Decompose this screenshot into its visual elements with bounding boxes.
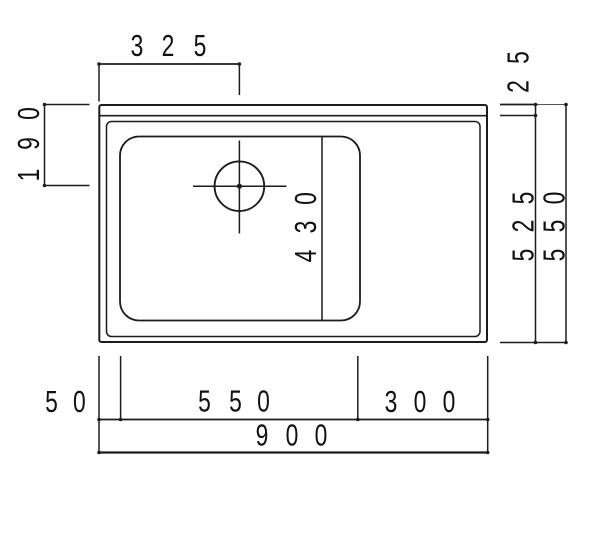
inner rim rectangle	[107, 122, 481, 337]
drain crosshair vertical	[238, 141, 240, 234]
dim 325 right extension	[238, 64, 240, 95]
svg-text:5: 5	[537, 249, 571, 262]
dim 550 right dimension line	[565, 105, 567, 343]
dim 190 dimension line	[44, 105, 46, 186]
svg-text:4: 4	[289, 250, 323, 263]
back ledge line	[99, 115, 487, 117]
svg-text:0: 0	[315, 418, 328, 452]
right extension line ledge (525 top)	[500, 115, 536, 117]
svg-text:5: 5	[198, 384, 211, 418]
svg-text:3: 3	[385, 385, 398, 419]
right extension line top (y 550 top)	[500, 104, 536, 106]
svg-text:9: 9	[12, 137, 46, 150]
sink bowl rounded rectangle	[120, 137, 360, 321]
label 25 rotated	[501, 51, 535, 93]
bowl partition line	[321, 137, 323, 321]
svg-text:5: 5	[506, 249, 540, 262]
dim 50/550/300 dimension line	[99, 419, 488, 421]
label 50	[45, 385, 86, 419]
svg-text:5: 5	[506, 192, 540, 205]
drain crosshair horizontal	[193, 185, 287, 187]
svg-text:5: 5	[501, 51, 535, 64]
label 300	[385, 385, 456, 419]
right extension line bottom	[500, 342, 568, 344]
label 325	[131, 29, 207, 63]
dim 190 top extension	[45, 104, 90, 106]
svg-text:0: 0	[257, 384, 270, 418]
label 190 rotated	[12, 107, 46, 181]
dim 900 dimension line	[99, 451, 488, 453]
svg-text:0: 0	[73, 385, 86, 419]
label 550 bottom	[198, 384, 270, 418]
svg-text:3: 3	[131, 29, 144, 63]
sink outer rim rectangle	[99, 105, 487, 342]
svg-text:0: 0	[537, 192, 571, 205]
svg-text:1: 1	[12, 169, 46, 182]
dim 325 end dots	[97, 62, 101, 66]
label 430 rotated	[289, 192, 323, 262]
svg-text:0: 0	[12, 107, 46, 120]
svg-text:0: 0	[443, 385, 456, 419]
dim 325 left extension	[98, 64, 100, 102]
dim 190 bottom extension	[45, 185, 90, 187]
bottom extension 550/300 tick (x=357.8)	[357, 356, 359, 420]
label 525 rotated	[506, 192, 540, 262]
svg-text:0: 0	[414, 385, 427, 419]
svg-text:0: 0	[286, 418, 299, 452]
svg-text:5: 5	[537, 220, 571, 233]
svg-text:0: 0	[289, 192, 323, 205]
dim 525 dimension line	[535, 105, 537, 343]
bottom extension right (x=487.7)	[487, 356, 489, 454]
dim 190 end dots	[43, 103, 47, 107]
bottom dims end dots	[97, 418, 101, 422]
label 900	[256, 418, 328, 452]
svg-text:5: 5	[194, 29, 207, 63]
drain circle	[215, 161, 265, 211]
svg-text:2: 2	[162, 29, 175, 63]
svg-text:9: 9	[256, 418, 269, 452]
label 550 right rotated	[537, 192, 571, 262]
dim 325 dimension line	[99, 63, 239, 65]
svg-text:3: 3	[289, 221, 323, 234]
bottom extension 50/550 tick (x=120.6)	[120, 356, 122, 420]
bottom extension left (x=99)	[98, 356, 100, 454]
svg-text:2: 2	[506, 220, 540, 233]
right dims end dots	[534, 103, 538, 107]
svg-text:2: 2	[501, 80, 535, 93]
svg-text:5: 5	[45, 385, 58, 419]
drain center dot	[237, 184, 242, 189]
svg-text:5: 5	[229, 384, 242, 418]
